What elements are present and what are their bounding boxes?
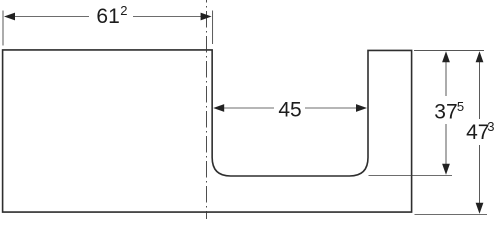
svg-text:47: 47	[466, 121, 489, 144]
svg-text:3: 3	[487, 119, 494, 134]
svg-text:45: 45	[278, 99, 301, 122]
svg-text:5: 5	[457, 99, 464, 114]
svg-text:61: 61	[96, 5, 119, 28]
svg-text:37: 37	[434, 101, 457, 124]
svg-text:2: 2	[120, 3, 127, 18]
